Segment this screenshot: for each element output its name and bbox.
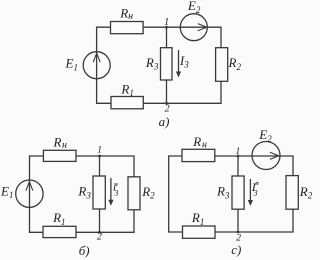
resistor R2 (circuit c) [286, 176, 298, 210]
resistor R1 (circuit a) [111, 97, 143, 109]
arrow of E1 (circuit b) [26, 182, 33, 191]
wire: circuit c middle branch node1-node2 [237, 156, 239, 232]
node 1 junction dot (circuit b) [98, 155, 101, 158]
EMF source E2 (circuit a) [180, 14, 207, 41]
EMF source E2 (circuit c) [252, 142, 280, 170]
arrow of E1 (circuit a) [93, 53, 100, 62]
resistor R1 (circuit b) [43, 226, 76, 237]
resistor Rн (circuit b) [43, 150, 76, 161]
wire: circuit b middle branch node1-node2 [99, 156, 101, 232]
node 2 junction dot (circuit b) [98, 231, 101, 234]
resistor R3 (circuit a) [161, 48, 173, 80]
resistor R3 (circuit b) [93, 176, 105, 209]
svg-text:2: 2 [97, 232, 102, 243]
node 1 junction dot (circuit a) [165, 26, 168, 29]
svg-text:c): c) [231, 242, 241, 257]
node 2 junction dot (circuit a) [165, 102, 168, 105]
wire: circuit c outer loop [169, 156, 293, 232]
node 2 junction dot (circuit c) [237, 231, 240, 234]
EMF source E1 (circuit a) [83, 52, 110, 79]
current arrow I3 (circuit a) [178, 50, 180, 74]
current arrow I'3 (circuit b) [110, 178, 112, 202]
current arrow I''3 (circuit c) [249, 179, 251, 202]
node 1 junction dot (circuit c) [237, 155, 240, 158]
svg-text:а): а) [159, 114, 170, 129]
resistor R2 (circuit a) [216, 48, 228, 82]
arrow of E2 (circuit a) [198, 24, 207, 31]
wire: circuit b outer loop [30, 156, 135, 232]
svg-text:1: 1 [164, 17, 169, 28]
resistor R3 (circuit c) [232, 176, 244, 209]
resistor Rн (circuit c) [182, 149, 215, 161]
svg-text:б): б) [79, 243, 90, 258]
resistor R2 (circuit b) [128, 177, 140, 210]
arrow of E2 (circuit c) [270, 152, 279, 159]
wire: circuit a outer loop [97, 27, 221, 103]
wire: circuit a middle branch node1-node2 [166, 27, 168, 103]
svg-text:1: 1 [97, 146, 102, 156]
resistor R1 (circuit c) [183, 226, 216, 238]
EMF source E1 (circuit b) [16, 180, 43, 207]
resistor Rн (circuit a) [111, 22, 144, 34]
svg-text:1: 1 [236, 147, 241, 157]
